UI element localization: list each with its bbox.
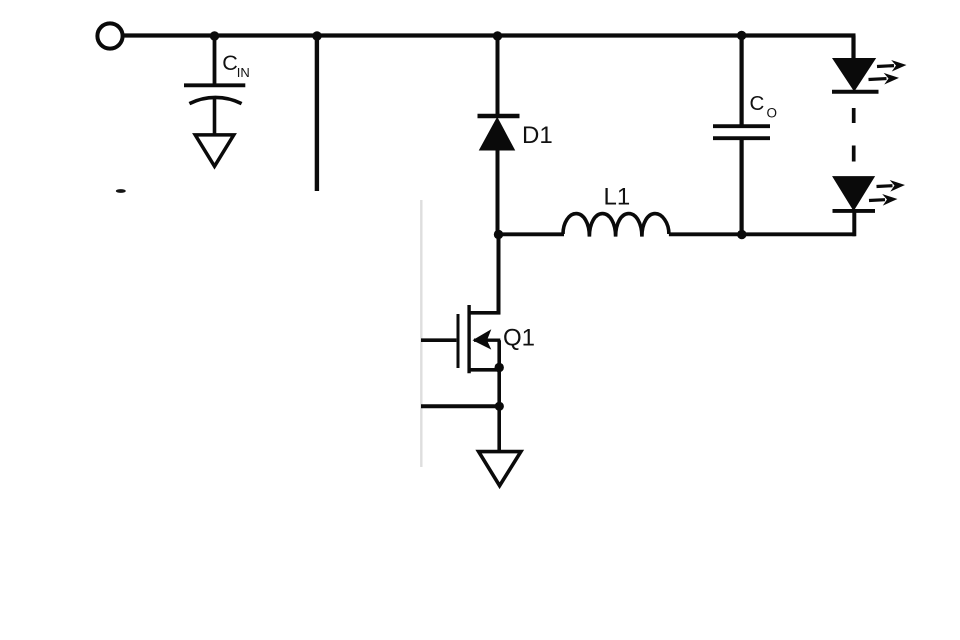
wire: top rail <box>124 33 856 37</box>
node: stub tap <box>312 31 321 40</box>
wire: Co top drop <box>739 36 743 125</box>
node: switch node (L1 left) <box>494 230 503 239</box>
wire: Q1 drain riser <box>497 235 501 315</box>
svg-text:C: C <box>750 92 765 115</box>
ground (Q1 source) <box>479 452 521 486</box>
svg-text:Q1: Q1 <box>503 325 535 352</box>
transistor Q1 (body arrow) <box>473 329 501 349</box>
diode D1 (anode triangle) <box>480 118 514 150</box>
node: Co top <box>737 31 746 40</box>
artifact mark <box>116 189 126 193</box>
wire: CIN drop <box>213 36 217 85</box>
wire: dashed LED string continuation <box>852 108 856 162</box>
capacitor CIN (polarized) <box>184 85 245 103</box>
wire: gate lead <box>421 338 456 342</box>
wire: source drop <box>497 340 501 452</box>
wire: switch node to L1 <box>499 232 565 236</box>
svg-text:C: C <box>222 51 238 75</box>
wire: D1 anode to switch node <box>496 149 500 236</box>
transistor Q1 (channel bar) <box>467 305 470 373</box>
LED 1 (triangle) <box>833 59 874 90</box>
capacitor Co <box>713 126 770 138</box>
node: CIN tap <box>210 31 219 40</box>
node: Co bottom <box>737 230 746 239</box>
label Co <box>750 92 778 121</box>
inductor L1 <box>563 214 669 237</box>
wire: LED string bottom drop <box>852 211 856 236</box>
input terminal (open circle) <box>97 23 122 48</box>
wire: Co bottom drop <box>739 140 743 236</box>
svg-text:D1: D1 <box>522 122 553 149</box>
ground (CIN) <box>195 135 234 166</box>
transistor Q1 (drain lead) <box>469 311 500 315</box>
node: D1 top <box>493 31 502 40</box>
diode D1 (cathode bar) <box>478 114 520 118</box>
faint remnant line (erased IC edge) <box>420 200 422 467</box>
svg-text:O: O <box>767 106 778 121</box>
wire: CIN to ground <box>213 98 217 135</box>
wire: D1 cathode drop <box>496 36 500 115</box>
LED 1 emission arrows <box>877 59 907 72</box>
wire: lower return lead <box>421 404 499 408</box>
LED 2 (cathode bar) <box>833 209 876 213</box>
LED 2 (triangle) <box>833 177 873 210</box>
label CIN <box>222 51 250 80</box>
wire: L1 to output rail <box>669 232 856 236</box>
svg-text:IN: IN <box>237 65 250 80</box>
LED 1 (cathode bar) <box>832 90 879 94</box>
transistor Q1 (source lead) <box>470 368 501 372</box>
transistor Q1 (gate bar) <box>457 314 460 368</box>
wire: LED string top drop <box>851 36 855 60</box>
svg-text:L1: L1 <box>604 184 631 211</box>
wire: vertical stub <box>315 36 319 191</box>
node: gate-return tie <box>495 402 504 411</box>
LED 2 emission arrows <box>876 179 905 192</box>
node: source/body tie <box>495 363 504 372</box>
